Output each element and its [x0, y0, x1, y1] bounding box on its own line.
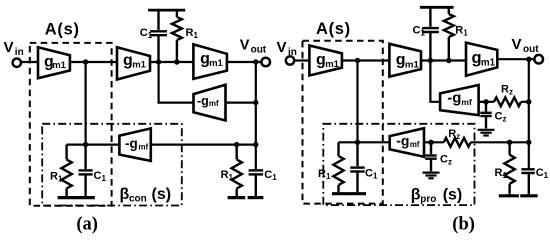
svg-text:C1: C1 [140, 27, 153, 40]
node junction dot Cz lower [428, 140, 433, 145]
op-amp -gmf M3 (feedforward, b) [440, 85, 479, 115]
node junction dot Vout/-gmf input [253, 100, 258, 105]
op-amp gm1 A2 (second stage, a) [117, 47, 150, 79]
op-amp gm1 A1 (first stage, a) [38, 47, 70, 78]
svg-text:R1: R1 [50, 170, 63, 183]
svg-text:m1: m1 [52, 60, 66, 71]
op-amp -gmf M2 (beta_con, a) [119, 128, 150, 161]
node n2b junction dot (R1 top) [174, 59, 179, 64]
svg-text:mf: mf [461, 97, 472, 107]
svg-text:C1: C1 [365, 167, 378, 180]
node junction dot Vout/feedback wire (b) [526, 140, 531, 145]
svg-text:mf: mf [410, 140, 420, 149]
capacitor Cz (lower, b) [425, 142, 436, 171]
svg-text:R1: R1 [318, 168, 331, 181]
wire B1 output to B2 [342, 59, 390, 61]
wire input to gm1 A1 [21, 61, 38, 63]
svg-text:Rz: Rz [448, 128, 460, 141]
svg-text:-g: -g [125, 136, 138, 151]
box A(s) dashed (a) [30, 43, 112, 206]
capacitor C1 (load, a) [249, 170, 264, 196]
op-amp gm1 B2 (second stage, b) [389, 44, 421, 77]
wire beta_con node horizontal (R1/C1 to -gmf M2) [67, 144, 120, 146]
op-amp gm1 A3 (third stage, a) [193, 44, 227, 79]
svg-text:-g: -g [396, 133, 409, 149]
svg-text:R1: R1 [455, 24, 468, 37]
node Vout junction dot (a) [253, 59, 258, 64]
svg-text:R1: R1 [495, 167, 508, 180]
node m2b junction dot (R1 top) [446, 58, 451, 63]
capacitor C1 (top, b) [422, 7, 439, 60]
svg-text:(s): (s) [443, 186, 463, 203]
wire Vout down to C1 load [255, 62, 257, 169]
wire Vout down to C1 load (b) [528, 59, 530, 169]
ground (Cz lower, b) [423, 173, 440, 179]
svg-text:m1: m1 [325, 59, 339, 70]
svg-text:mf: mf [138, 143, 148, 152]
svg-text:-g: -g [447, 90, 461, 107]
wire m1 down to beta_pro node [356, 61, 358, 143]
node junction dot beta_pro [355, 140, 360, 145]
capacitor C1 (beta_pro, b) [350, 142, 364, 192]
node n2 junction dot (C1 top) [156, 59, 161, 64]
svg-text:-g: -g [197, 94, 209, 108]
svg-text:V: V [4, 39, 14, 56]
svg-text:pro: pro [420, 194, 436, 205]
svg-text:Cz: Cz [440, 153, 452, 166]
wire beta_pro node horizontal (R1/C1 to -gmf M4) [339, 141, 390, 143]
node junction dot beta_con [83, 142, 88, 147]
resistor R1 (top, b) [444, 7, 454, 60]
resistor R1 (load, a) [232, 145, 242, 197]
svg-text:V: V [512, 36, 522, 53]
node Vout junction dot (b) [526, 57, 531, 62]
capacitor C1 (beta_con, a) [79, 145, 93, 197]
box beta_pro dash-dot (b) [323, 124, 474, 205]
box A(s) dashed (b) [303, 41, 383, 204]
wire Rz lower to output node [471, 141, 529, 143]
svg-text:β: β [120, 186, 130, 203]
wire n2 down and into -gmf M1 output [159, 62, 194, 103]
resistor R1 (load, b) [504, 142, 514, 194]
svg-text:out: out [251, 44, 267, 55]
box beta_con dash-dot (a) [42, 124, 182, 206]
resistor R1 (beta_con, a) [61, 145, 71, 197]
op-amp gm1 B1 (first stage, b) [309, 46, 342, 76]
ground bar (load R1, a) [228, 196, 246, 199]
resistor R1 (beta_pro, b) [333, 142, 343, 192]
svg-text:(a): (a) [76, 214, 98, 234]
resistor Rz (lower, b) [444, 138, 471, 147]
svg-text:m1: m1 [132, 59, 146, 70]
ground bar (load C1, a) [248, 196, 264, 199]
wire m2 down and into -gmf M3 output [430, 61, 440, 102]
svg-text:C1: C1 [413, 24, 426, 37]
svg-text:β: β [411, 186, 421, 203]
wire B3 output to Vout [497, 58, 534, 60]
wire input to gm1 B1 [294, 59, 309, 61]
wire B2 output to B3 [421, 59, 466, 61]
wire -gmf M1 input from Vout line [226, 101, 256, 103]
svg-text:A(s): A(s) [316, 20, 351, 38]
output terminal circle (a) [261, 58, 270, 67]
svg-text:out: out [523, 44, 539, 55]
top rail (a) [148, 9, 185, 12]
svg-text:C1: C1 [264, 169, 277, 182]
wire n1 down to beta_con node [84, 62, 86, 145]
wire -gmf M4 input to Cz node [424, 141, 444, 143]
ground bar (load C1, b) [520, 194, 538, 197]
wire A1 output to A2 [70, 61, 117, 63]
node junction dot R1 load top (a) [234, 142, 239, 147]
capacitor C1 (load, b) [521, 169, 534, 194]
svg-text:C1: C1 [536, 167, 549, 180]
wire A3 output to Vout [227, 61, 262, 63]
op-amp -gmf M1 (feedforward, a) [194, 85, 226, 121]
node junction dot Vout/feedback wire [253, 142, 258, 147]
wire Rz upper to Vout line [521, 101, 529, 103]
op-amp -gmf M4 (beta_pro, b) [390, 128, 424, 157]
capacitor Cz (upper, b) [480, 102, 491, 129]
svg-text:mf: mf [209, 99, 219, 108]
svg-text:A(s): A(s) [45, 20, 80, 38]
svg-text:Cz: Cz [495, 110, 507, 123]
svg-text:(b): (b) [452, 214, 475, 234]
ground bar (beta_pro R1 C1, b) [332, 192, 366, 195]
svg-text:in: in [15, 47, 24, 58]
node m2 junction dot (C1 top) [428, 58, 433, 63]
node m1 junction dot [355, 58, 360, 63]
input terminal circle (a) [13, 59, 21, 67]
svg-text:m1: m1 [481, 58, 496, 69]
svg-text:V: V [277, 39, 287, 56]
op-amp gm1 B3 (third stage, b) [466, 43, 497, 76]
svg-text:V: V [240, 37, 250, 53]
wire -gmf M3 input to Rz [479, 101, 494, 103]
node junction dot Vout/Rz upper [526, 99, 531, 104]
capacitor C1 (top, a) [150, 10, 167, 62]
svg-text:m1: m1 [405, 59, 419, 70]
output terminal circle (b) [534, 55, 543, 64]
svg-text:R1: R1 [221, 169, 234, 182]
svg-text:(s): (s) [152, 186, 172, 203]
svg-text:R1: R1 [186, 27, 199, 40]
ground bar (beta_con R1 C1, a) [58, 196, 95, 199]
wire -gmf M2 input long feedback from output node [151, 144, 256, 146]
svg-text:m1: m1 [209, 58, 223, 69]
wire A2 output to A3 [150, 61, 193, 63]
node n1 junction dot [83, 59, 88, 64]
top rail (b) [420, 6, 454, 9]
node junction dot R1 load top (b) [507, 140, 512, 145]
svg-text:C1: C1 [94, 170, 107, 183]
svg-text:con: con [129, 194, 147, 205]
resistor Rz (upper, b) [494, 97, 521, 106]
input terminal circle (b) [286, 56, 294, 64]
svg-text:Rz: Rz [501, 84, 513, 97]
ground (Cz upper, b) [478, 130, 495, 136]
ground bar (load R1, b) [499, 194, 519, 197]
node junction dot Cz upper [483, 99, 488, 104]
resistor R1 (top, a) [172, 10, 182, 62]
